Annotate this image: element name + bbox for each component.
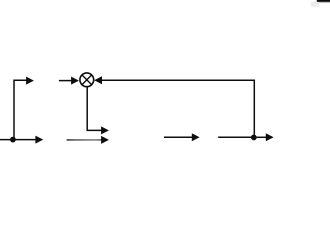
wire: mixer output down then right with arrow [87,87,109,135]
wire: arrow into mixer left input [59,77,79,85]
wire: arrow out of right node [254,133,274,141]
cropped rule fragment top-right [311,0,330,7]
wire: middle arrow [164,133,200,141]
wire: into right node [218,136,254,138]
wire: feedback line from right into mixer [94,76,254,134]
wire: left branch vertical with top arrow [14,77,34,140]
node: left junction [10,137,16,143]
mixer (multiplier) symbol [80,73,94,87]
node: right junction [251,135,257,141]
wire: lower stacked arrow (faded line) [67,136,109,144]
wire: bottom-left with arrow [0,136,43,144]
